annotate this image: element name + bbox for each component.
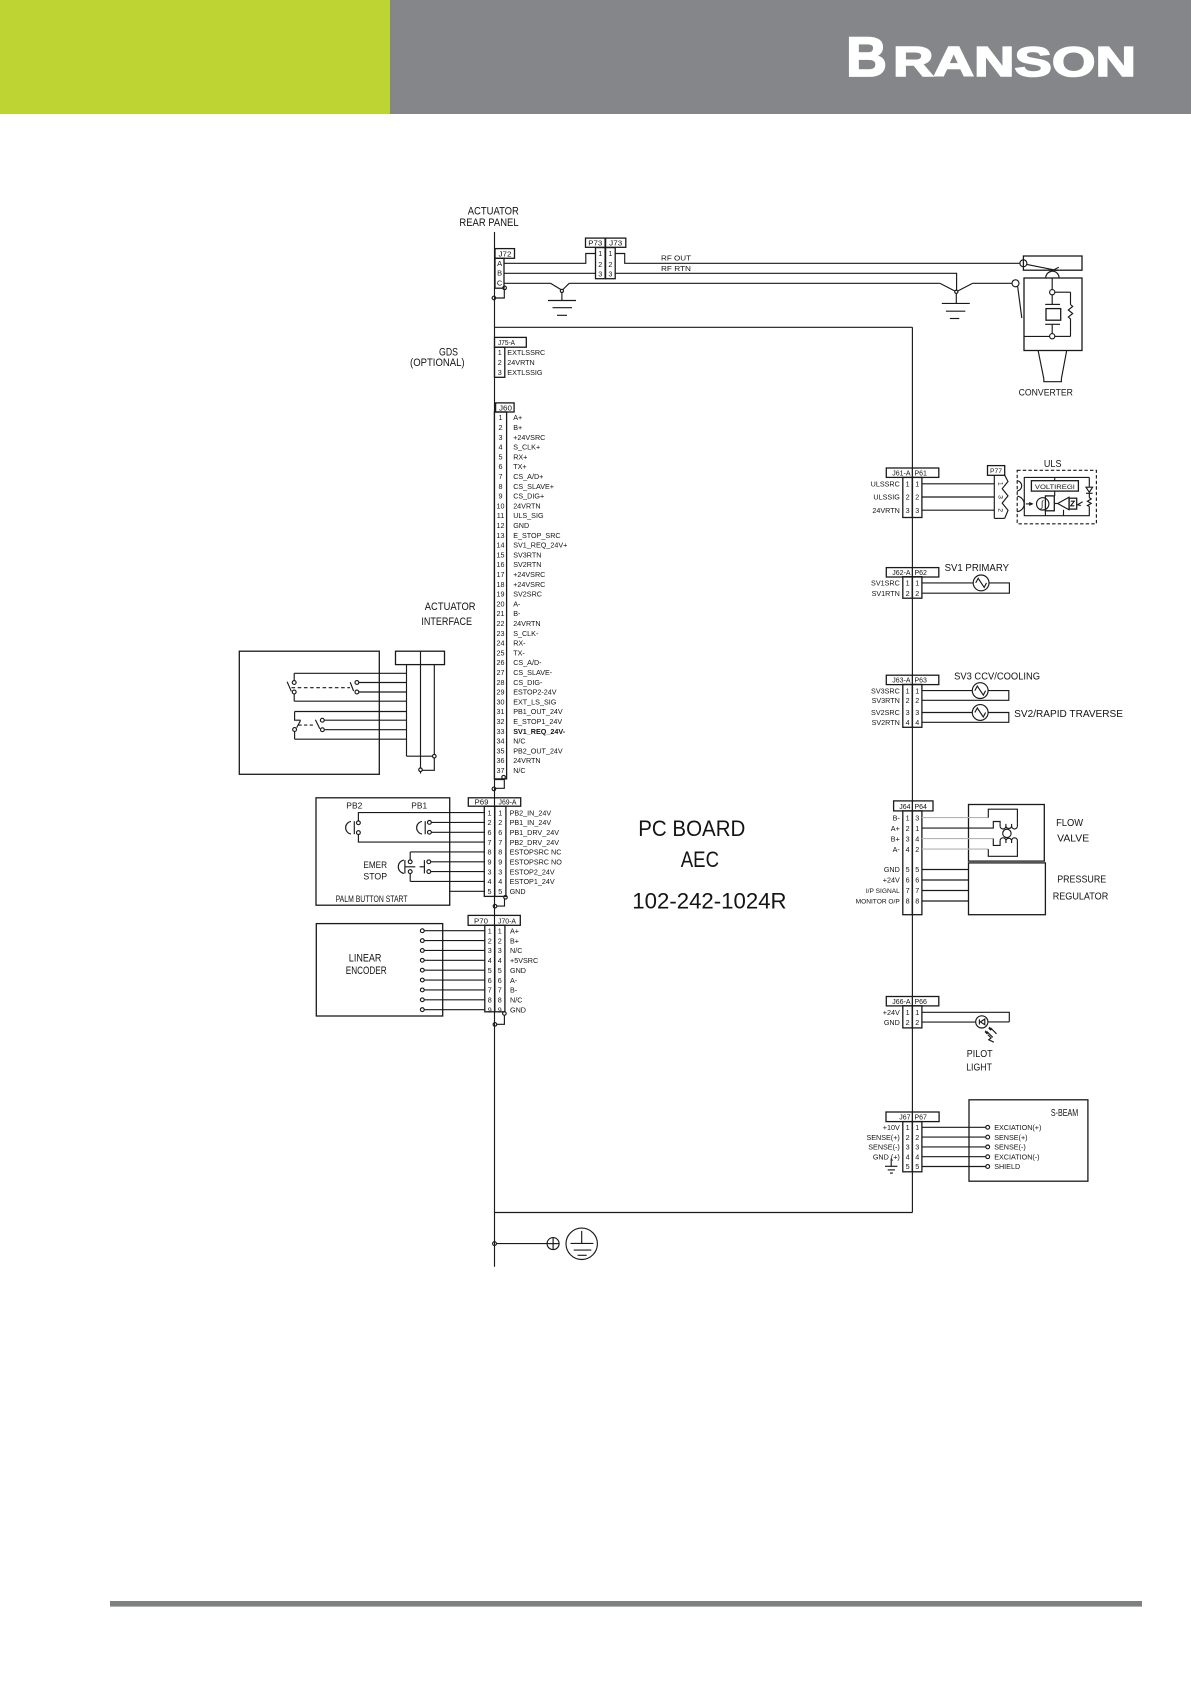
svg-text:GND: GND [513,521,529,530]
svg-text:6: 6 [488,828,492,837]
svg-text:N/C: N/C [510,995,522,1004]
svg-text:3: 3 [499,433,503,442]
svg-text:5: 5 [488,887,492,896]
svg-text:EMER: EMER [363,860,387,870]
svg-text:4: 4 [906,718,910,727]
svg-text:RF RTN: RF RTN [661,264,691,273]
svg-text:SV3SRC: SV3SRC [871,686,900,695]
svg-text:+5VSRC: +5VSRC [510,956,538,965]
svg-text:P62: P62 [915,570,928,577]
svg-text:GND: GND [510,1005,526,1014]
svg-text:3: 3 [997,495,1004,499]
svg-text:24VRTN: 24VRTN [872,506,899,515]
svg-text:1: 1 [498,348,502,357]
svg-text:3: 3 [498,368,502,377]
svg-text:SENSE(+): SENSE(+) [994,1133,1027,1142]
svg-text:1: 1 [915,824,919,833]
svg-text:7: 7 [498,986,502,995]
svg-text:17: 17 [497,570,505,579]
svg-text:LINEAR: LINEAR [349,953,382,965]
svg-text:TX+: TX+ [513,462,526,471]
svg-text:EXCIATION(-): EXCIATION(-) [994,1152,1039,1161]
svg-text:18: 18 [497,580,505,589]
svg-text:4: 4 [915,834,919,843]
svg-text:7: 7 [488,838,492,847]
svg-text:1: 1 [906,686,910,695]
svg-text:A: A [497,259,502,268]
svg-text:36: 36 [497,756,505,765]
svg-text:SV3 CCV/COOLING: SV3 CCV/COOLING [954,671,1040,682]
svg-text:2: 2 [915,845,919,854]
svg-text:N/C: N/C [510,946,522,955]
svg-text:8: 8 [498,848,502,857]
svg-text:CS_A/D+: CS_A/D+ [513,472,543,481]
svg-text:1: 1 [498,808,502,817]
svg-text:1: 1 [997,482,1004,486]
svg-text:13: 13 [497,531,505,540]
svg-text:ESTOP1_24V: ESTOP1_24V [510,877,555,886]
svg-text:2: 2 [498,358,502,367]
svg-text:3: 3 [498,946,502,955]
svg-text:INTERFACE: INTERFACE [421,616,472,628]
svg-text:TX-: TX- [513,648,525,657]
svg-text:A+: A+ [513,413,522,422]
svg-text:B: B [497,269,502,278]
svg-text:PRESSURE: PRESSURE [1057,874,1106,885]
svg-text:P77: P77 [990,468,1002,475]
svg-text:EXT_LS_SIG: EXT_LS_SIG [513,697,557,706]
svg-text:2: 2 [488,818,492,827]
svg-text:GND: GND [884,1018,900,1027]
svg-text:1: 1 [488,808,492,817]
svg-text:J63-A: J63-A [892,678,911,685]
svg-text:+10V: +10V [883,1123,900,1132]
svg-text:S_CLK-: S_CLK- [513,629,539,638]
svg-text:REGULATOR: REGULATOR [1053,891,1109,902]
svg-text:SV2RTN: SV2RTN [872,718,900,727]
svg-text:2: 2 [915,1018,919,1027]
svg-text:SV2SRC: SV2SRC [513,590,542,599]
svg-text:30: 30 [497,697,505,706]
svg-text:25: 25 [497,648,505,657]
svg-text:CS_A/D-: CS_A/D- [513,658,542,667]
svg-text:J66-A: J66-A [892,999,911,1006]
svg-text:ULSSIG: ULSSIG [873,493,900,502]
svg-text:J60: J60 [499,405,512,412]
svg-text:P67: P67 [915,1115,928,1122]
svg-text:SENSE(+): SENSE(+) [866,1133,899,1142]
svg-text:PB2_DRV_24V: PB2_DRV_24V [510,838,560,847]
svg-text:LIGHT: LIGHT [966,1063,992,1074]
svg-text:2: 2 [915,589,919,598]
svg-text:3: 3 [488,867,492,876]
svg-text:B+: B+ [510,936,519,945]
svg-text:ESTOP2-24V: ESTOP2-24V [513,688,557,697]
svg-text:5: 5 [915,865,919,874]
svg-text:2: 2 [488,936,492,945]
svg-text:J64: J64 [899,804,910,811]
svg-text:28: 28 [497,678,505,687]
svg-text:PB1_DRV_24V: PB1_DRV_24V [510,828,560,837]
svg-text:37: 37 [497,766,505,775]
svg-text:(OPTIONAL): (OPTIONAL) [410,357,465,369]
svg-text:SV3RTN: SV3RTN [513,550,541,559]
svg-text:7: 7 [915,886,919,895]
svg-text:ACTUATOR: ACTUATOR [425,601,476,613]
svg-text:J70-A: J70-A [498,918,516,925]
svg-text:3: 3 [906,506,910,515]
svg-text:1: 1 [906,579,910,588]
svg-text:15: 15 [497,550,505,559]
svg-text:P63: P63 [915,678,928,685]
svg-text:C: C [497,279,503,288]
svg-text:2: 2 [906,1018,910,1027]
svg-text:I/P SIGNAL: I/P SIGNAL [866,888,900,895]
svg-text:8: 8 [499,482,503,491]
svg-text:3: 3 [906,1143,910,1152]
svg-text:B+: B+ [513,423,522,432]
svg-text:MONITOR O/P: MONITOR O/P [856,899,901,906]
svg-text:2: 2 [997,508,1004,512]
svg-text:7: 7 [488,986,492,995]
svg-text:6: 6 [498,828,502,837]
svg-text:SV1_REQ_24V+: SV1_REQ_24V+ [513,541,567,550]
svg-text:E_STOP1_24V: E_STOP1_24V [513,717,562,726]
svg-text:FLOW: FLOW [1056,818,1084,829]
svg-text:1: 1 [915,1123,919,1132]
svg-text:3: 3 [906,834,910,843]
svg-text:P64: P64 [915,804,928,811]
svg-text:SV1SRC: SV1SRC [871,579,900,588]
svg-text:∫: ∫ [1040,499,1045,509]
svg-text:1: 1 [915,579,919,588]
svg-text:+24VSRC: +24VSRC [513,570,545,579]
svg-text:26: 26 [497,658,505,667]
svg-text:5: 5 [499,452,503,461]
svg-text:SENSE(-): SENSE(-) [868,1143,900,1152]
svg-text:9: 9 [498,1005,502,1014]
svg-text:1: 1 [915,480,919,489]
svg-text:4: 4 [915,1152,919,1161]
svg-text:PB1: PB1 [411,801,427,811]
svg-text:3: 3 [915,708,919,717]
svg-text:3: 3 [915,1143,919,1152]
svg-text:9: 9 [488,858,492,867]
svg-text:PB1_OUT_24V: PB1_OUT_24V [513,707,563,716]
svg-text:1: 1 [906,1008,910,1017]
svg-text:CS_SLAVE-: CS_SLAVE- [513,668,553,677]
svg-text:2: 2 [906,589,910,598]
svg-text:PB1_IN_24V: PB1_IN_24V [510,818,552,827]
svg-text:2: 2 [906,493,910,502]
svg-text:24VRTN: 24VRTN [513,619,540,628]
svg-text:P66: P66 [915,999,928,1006]
svg-text:3: 3 [906,708,910,717]
svg-text:19: 19 [497,590,505,599]
svg-text:31: 31 [497,707,505,716]
svg-text:S_CLK+: S_CLK+ [513,443,540,452]
svg-text:A+: A+ [510,926,519,935]
svg-text:6: 6 [488,976,492,985]
svg-text:5: 5 [906,1162,910,1171]
svg-text:P70: P70 [474,918,488,925]
svg-text:2: 2 [915,493,919,502]
svg-text:6: 6 [915,876,919,885]
svg-text:ULSSRC: ULSSRC [871,480,900,489]
svg-text:8: 8 [498,995,502,1004]
svg-text:CONVERTER: CONVERTER [1019,387,1073,398]
svg-text:8: 8 [906,897,910,906]
svg-text:33: 33 [497,727,505,736]
svg-text:PALM BUTTON START: PALM BUTTON START [336,894,408,904]
svg-text:AEC: AEC [681,847,719,872]
svg-text:4: 4 [906,845,910,854]
svg-text:B: B [846,25,887,88]
svg-text:2: 2 [498,936,502,945]
svg-text:+24V: +24V [883,1008,900,1017]
svg-text:GND: GND [884,865,900,874]
svg-text:20: 20 [497,599,505,608]
svg-text:P73: P73 [588,241,602,248]
svg-text:4: 4 [488,956,492,965]
svg-text:SV2/RAPID TRAVERSE: SV2/RAPID TRAVERSE [1014,709,1123,720]
svg-text:+24VSRC: +24VSRC [513,580,545,589]
svg-text:1: 1 [608,249,612,258]
svg-text:24VRTN: 24VRTN [507,358,534,367]
svg-text:REAR PANEL: REAR PANEL [459,217,518,229]
svg-text:2: 2 [906,824,910,833]
svg-text:6: 6 [498,976,502,985]
svg-text:4: 4 [498,956,502,965]
svg-text:8: 8 [488,848,492,857]
svg-text:1: 1 [915,1008,919,1017]
svg-text:3: 3 [488,946,492,955]
svg-text:102-242-1024R: 102-242-1024R [632,889,786,914]
svg-text:EXTLSSIG: EXTLSSIG [507,368,543,377]
svg-text:1: 1 [906,1123,910,1132]
svg-text:8: 8 [488,995,492,1004]
svg-text:2: 2 [906,1133,910,1142]
svg-text:35: 35 [497,746,505,755]
svg-text:2: 2 [608,260,612,269]
svg-text:6: 6 [906,876,910,885]
svg-text:VOLTIREGI: VOLTIREGI [1035,484,1075,491]
svg-text:ULS_SIG: ULS_SIG [513,511,544,520]
svg-text:PB2_IN_24V: PB2_IN_24V [510,808,552,817]
svg-text:2: 2 [498,818,502,827]
svg-text:4: 4 [488,877,492,886]
svg-text:SV1_REQ_24V-: SV1_REQ_24V- [513,727,566,736]
svg-text:CS_DIG+: CS_DIG+ [513,492,544,501]
svg-text:PC BOARD: PC BOARD [638,816,745,841]
svg-text:3: 3 [608,269,612,278]
svg-text:2: 2 [915,1133,919,1142]
svg-text:J62-A: J62-A [892,570,911,577]
svg-text:ESTOPSRC NO: ESTOPSRC NO [510,858,563,867]
svg-text:24VRTN: 24VRTN [513,756,540,765]
svg-text:SV2SRC: SV2SRC [871,708,900,717]
svg-text:2: 2 [915,696,919,705]
svg-text:32: 32 [497,717,505,726]
svg-text:ENCODER: ENCODER [346,965,387,977]
svg-text:PILOT: PILOT [967,1049,993,1060]
svg-text:1: 1 [488,926,492,935]
svg-text:EXTLSSRC: EXTLSSRC [507,348,545,357]
svg-text:SENSE(-): SENSE(-) [994,1143,1026,1152]
svg-text:9: 9 [498,858,502,867]
svg-text:23: 23 [497,629,505,638]
svg-text:CS_DIG-: CS_DIG- [513,678,543,687]
svg-text:12: 12 [497,521,505,530]
svg-text:5: 5 [498,887,502,896]
svg-text:1: 1 [906,813,910,822]
svg-text:5: 5 [498,966,502,975]
svg-text:3: 3 [598,269,602,278]
svg-text:J73: J73 [609,241,622,248]
svg-text:ESTOP2_24V: ESTOP2_24V [510,867,555,876]
svg-text:11: 11 [497,511,504,520]
svg-text:E_STOP_SRC: E_STOP_SRC [513,531,560,540]
svg-text:9: 9 [499,492,503,501]
svg-text:1: 1 [498,926,502,935]
svg-text:1: 1 [906,480,910,489]
svg-text:SV1RTN: SV1RTN [872,589,900,598]
svg-text:B-: B- [893,813,901,822]
svg-text:ACTUATOR: ACTUATOR [468,206,519,218]
svg-text:STOP: STOP [363,871,387,881]
svg-text:J72: J72 [499,251,512,258]
svg-text:S-BEAM: S-BEAM [1051,1108,1078,1119]
svg-text:N/C: N/C [513,766,525,775]
svg-text:10: 10 [497,501,505,510]
svg-text:8: 8 [915,897,919,906]
svg-text:5: 5 [906,865,910,874]
svg-text:29: 29 [497,688,505,697]
svg-text:P61: P61 [915,470,928,477]
svg-text:PB2_OUT_24V: PB2_OUT_24V [513,746,563,755]
svg-text:4: 4 [499,443,503,452]
svg-text:7: 7 [498,838,502,847]
svg-text:A-: A- [513,599,521,608]
svg-text:J75-A: J75-A [498,340,515,347]
svg-text:SV2RTN: SV2RTN [513,560,541,569]
svg-text:EXCIATION(+): EXCIATION(+) [994,1123,1041,1132]
svg-text:5: 5 [488,966,492,975]
svg-text:ESTOPSRC NC: ESTOPSRC NC [510,848,562,857]
svg-text:B-: B- [510,986,518,995]
svg-text:22: 22 [497,619,505,628]
svg-text:3: 3 [915,506,919,515]
svg-text:14: 14 [497,541,505,550]
svg-text:SV3RTN: SV3RTN [872,696,900,705]
svg-text:4: 4 [906,1152,910,1161]
svg-text:GND: GND [510,966,526,975]
svg-text:24VRTN: 24VRTN [513,501,540,510]
svg-text:6: 6 [499,462,503,471]
svg-text:RF OUT: RF OUT [661,254,692,263]
svg-text:RX+: RX+ [513,452,527,461]
svg-text:1: 1 [915,686,919,695]
svg-text:4: 4 [915,718,919,727]
svg-text:27: 27 [497,668,505,677]
svg-text:4: 4 [498,877,502,886]
svg-text:2: 2 [906,696,910,705]
svg-text:J61-A: J61-A [892,470,911,477]
svg-text:N/C: N/C [513,737,525,746]
svg-text:21: 21 [497,609,505,618]
svg-text:ULS: ULS [1044,458,1062,470]
svg-text:24: 24 [497,639,505,648]
svg-text:SHIELD: SHIELD [994,1162,1020,1171]
svg-text:A-: A- [893,845,901,854]
svg-text:7: 7 [906,886,910,895]
svg-text:16: 16 [497,560,505,569]
svg-text:9: 9 [488,1005,492,1014]
svg-text:5: 5 [915,1162,919,1171]
svg-text:1: 1 [499,413,503,422]
svg-text:CS_SLAVE+: CS_SLAVE+ [513,482,554,491]
svg-text:1: 1 [598,249,602,258]
svg-text:34: 34 [497,737,505,746]
svg-text:J67: J67 [899,1115,910,1122]
svg-text:7: 7 [499,472,503,481]
svg-text:+24VSRC: +24VSRC [513,433,545,442]
svg-text:PB2: PB2 [346,801,362,811]
svg-text:+24V: +24V [883,876,900,885]
svg-text:B-: B- [513,609,521,618]
svg-text:A-: A- [510,976,518,985]
svg-text:B+: B+ [891,834,900,843]
svg-text:RX-: RX- [513,639,526,648]
svg-text:3: 3 [498,867,502,876]
svg-text:GND (+): GND (+) [873,1152,900,1161]
svg-text:A+: A+ [891,824,900,833]
svg-text:2: 2 [598,260,602,269]
svg-text:SV1 PRIMARY: SV1 PRIMARY [945,563,1010,574]
svg-text:GND: GND [510,887,526,896]
svg-text:RANSON: RANSON [893,38,1136,85]
svg-text:3: 3 [915,813,919,822]
svg-text:2: 2 [499,423,503,432]
svg-text:VALVE: VALVE [1057,834,1089,845]
